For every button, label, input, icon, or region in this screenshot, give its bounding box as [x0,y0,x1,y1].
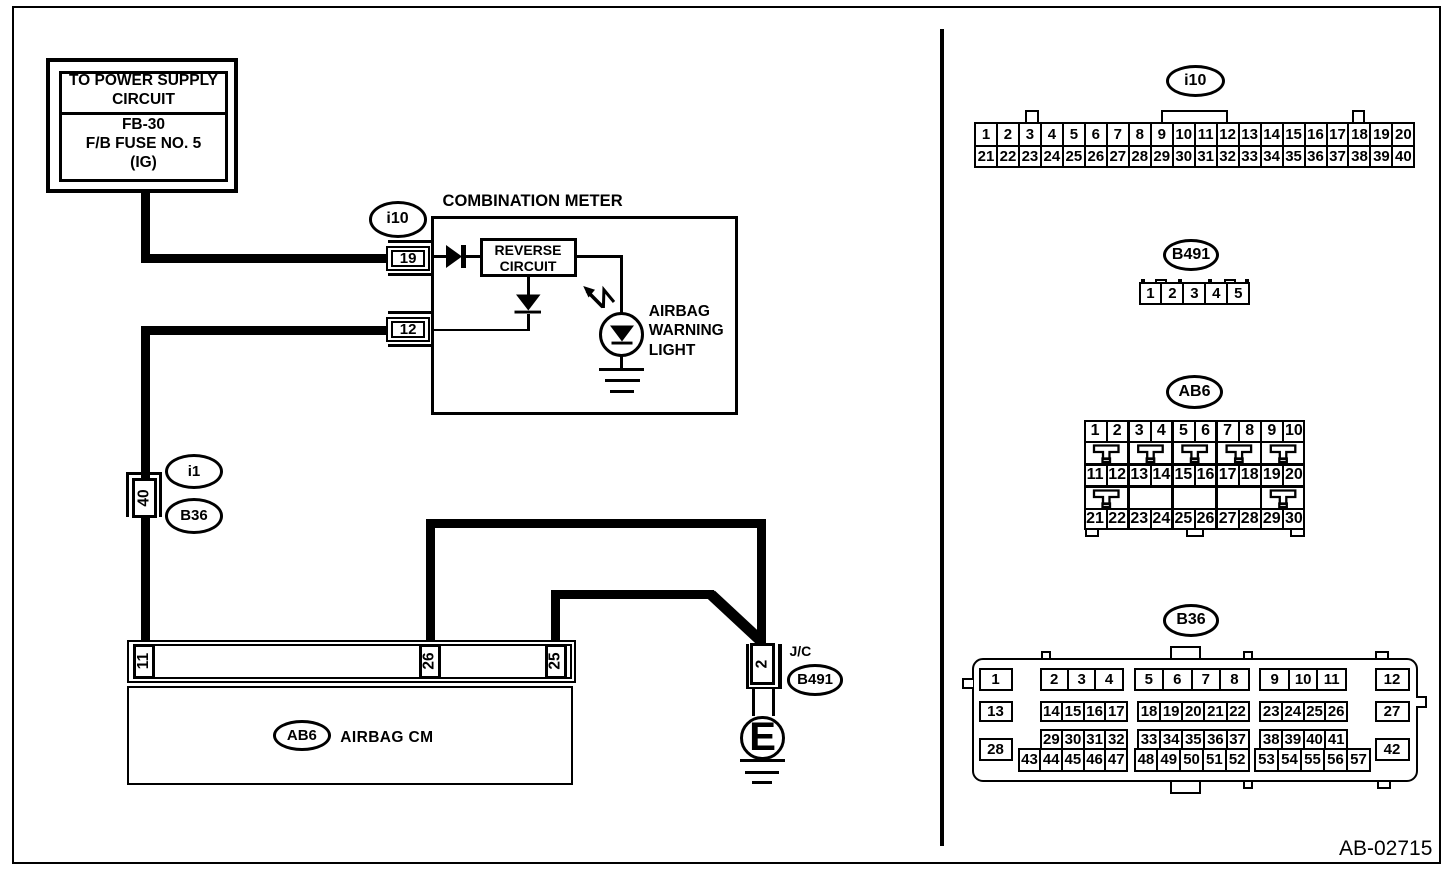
ground E bars [740,759,785,762]
wire down to LED [620,255,623,368]
wire pin 26 up [426,519,435,642]
B36 top tabs [1041,651,1051,659]
wire down to connector 40 [141,326,150,479]
connector pin 19 top line [388,240,431,243]
AB6 thin dividers row1 [1106,420,1108,441]
diode D2 stem [527,277,530,295]
AB6 keys row 4 [1084,486,1305,511]
diode D2 stem lower [527,314,530,332]
B36 pin 27 [1375,701,1410,722]
reverse circuit label [480,242,576,275]
connector pin 12 bottom line [388,344,431,347]
wire connector 40 to AB6 pin 11 [141,518,150,642]
B36 left bump [962,678,973,690]
AB6 group lines [1127,420,1130,529]
B36 pins 9-11 [1259,668,1347,691]
J/C label [790,643,812,659]
wire down to J/C pin 2 [757,519,766,644]
airbag warning light label [649,302,724,361]
AB6 keys row 2 [1084,441,1305,466]
diode D2 (vertical) [514,294,542,315]
B36 oval (pinout) [1163,604,1220,637]
B491 oval (pinout) [1163,239,1220,272]
B491 tabs [1141,279,1145,283]
wire 25 diagonal [706,586,768,644]
connector pin 12 top line [388,311,431,314]
reverse circuit box [480,238,577,278]
power supply block outer box [46,58,238,193]
ground E neck [752,689,755,716]
B36 right bump [1416,696,1428,708]
B36 pins 14-17 [1040,701,1129,722]
AB6 pin 11 [133,644,156,679]
connector i10 oval (schematic) [369,201,427,238]
connector pin 2 bottom line [746,687,781,690]
AB6 connector strip outer [127,640,576,683]
power supply block text [59,71,228,109]
connector pin 2 box [750,643,775,685]
wire reverse circuit to LED branch [577,255,623,258]
combination meter label [443,192,623,211]
B36 pin 42 [1375,738,1410,761]
wire D2 to pin 12 [431,329,531,332]
connector pin 12 outer box [386,317,431,342]
B36 pins 53-57 [1254,748,1371,772]
airbag CM label [340,729,433,747]
ground (LED) [599,368,645,371]
divider line [940,29,944,846]
wire LED to ground [620,355,623,369]
B36 pins 2-4 [1040,668,1124,691]
connector pin 19 inner box [391,250,425,266]
combination meter box [431,216,738,415]
wire diode to reverse circuit [466,255,481,258]
AB6 oval (pinout) [1166,375,1223,409]
connector 40 left line [126,472,129,516]
wire pin 25 up [551,590,560,642]
i1 oval [165,454,224,489]
B36 pins 23-26 [1259,701,1348,722]
connector 40 box [132,478,157,519]
B36 pins 33-37 [1137,729,1250,751]
B36 pins 38-41 [1259,729,1348,751]
B36 bottom tabs [1170,780,1201,794]
wire pin 12 left [141,326,386,335]
connector pin 19 bottom line [388,273,431,276]
B491 pinout grid [1139,282,1251,305]
airbag warning light LED circle [599,312,645,358]
connector 40 top line [126,472,162,475]
LED triangle [608,324,636,346]
B36 pin 12 [1375,668,1410,691]
B491 oval (schematic) [787,664,844,695]
B36 pin 28 [979,738,1013,761]
B36 pins 5-8 [1134,668,1250,691]
AB6 oval (schematic) [273,720,331,751]
B36 oval (schematic) [165,498,224,534]
power supply block divider [60,112,227,115]
i10 tab small left [1025,110,1039,123]
AB6 numbers row 3 [1084,465,1305,486]
wire 26 horizontal [426,519,766,528]
power supply block inner box [59,71,229,183]
AB6 thin dividers row5 [1106,510,1108,529]
B36 pins 29-32 [1040,729,1129,751]
drawing number [1339,837,1432,861]
AB6 connector strip band [133,644,572,679]
AB6 pinout outer box [1084,420,1305,530]
airbag CM box [127,686,573,785]
B36 pins 18-22 [1137,701,1250,722]
AB6 bottom tabs [1085,530,1099,537]
B36 pins 43-47 [1018,748,1128,772]
connector 40 right line [159,472,162,516]
i10 tab small right [1352,110,1365,123]
i10 oval (pinout) [1166,65,1225,97]
B36 pin 13 [979,701,1013,722]
i10 pinout grid [974,122,1415,168]
connector pin 2 right line [778,644,781,689]
AB6 row lines [1085,441,1304,443]
connector pin 19 outer box [386,246,431,271]
connector pin 12 inner box [391,321,425,337]
light emission arrow [580,283,620,311]
AB6 numbers row 5 [1084,509,1305,530]
wire pin19 to diode [431,255,447,258]
AB6 thin dividers row3 [1106,465,1108,486]
AB6 numbers row 1 [1084,420,1305,441]
AB6 pin 26 [419,644,441,679]
B36 pin 1 [979,668,1013,691]
i10 tab wide [1161,110,1228,123]
wire from fuse box down [141,193,150,263]
B36 pins 48-52 [1134,748,1250,772]
B36 body [972,658,1418,782]
wire to connector 19 [141,254,386,263]
ground E circle [740,716,785,761]
diode D1 (horizontal) [444,243,470,270]
AB6 pin 25 [545,644,567,679]
connector pin 2 left line [746,644,749,689]
wire 25 horizontal [551,590,714,599]
